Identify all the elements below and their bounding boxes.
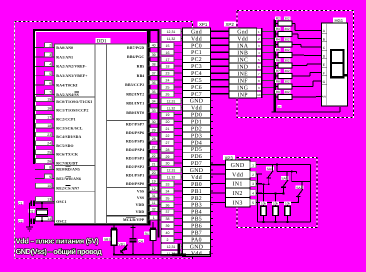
svg-text:34: 34 bbox=[152, 100, 156, 104]
svg-text:RB5: RB5 bbox=[137, 65, 145, 69]
svg-text:38: 38 bbox=[166, 217, 170, 221]
svg-text:Vdd – плюс питания (5V): Vdd – плюс питания (5V) bbox=[16, 237, 100, 246]
svg-text:6: 6 bbox=[49, 81, 51, 85]
svg-text:Vdd: Vdd bbox=[191, 35, 202, 42]
MCU right pin stubs, numbers and names bbox=[147, 47, 161, 49]
svg-text:302: 302 bbox=[284, 69, 289, 73]
junction staircase top bbox=[276, 164, 278, 166]
svg-text:RD3/PSP3: RD3/PSP3 bbox=[126, 156, 144, 160]
svg-text:35: 35 bbox=[166, 196, 170, 200]
svg-text:33: 33 bbox=[152, 109, 156, 113]
connector XP1 pin number boxes bbox=[161, 29, 181, 34]
svg-text:23: 23 bbox=[166, 72, 170, 76]
svg-text:RD7/PSP7: RD7/PSP7 bbox=[126, 122, 144, 126]
wire MCLR down bbox=[152, 222, 154, 230]
svg-text:VDD: VDD bbox=[136, 210, 145, 214]
svg-text:11,32: 11,32 bbox=[167, 106, 176, 110]
svg-text:302: 302 bbox=[284, 80, 289, 84]
display HG1 box bbox=[322, 23, 348, 106]
svg-text:13: 13 bbox=[47, 198, 51, 202]
svg-text:18: 18 bbox=[47, 124, 51, 128]
svg-text:11,32: 11,32 bbox=[167, 176, 176, 180]
wire GND rail top bbox=[256, 164, 311, 166]
svg-text:RA2/AN2/VREF-: RA2/AN2/VREF- bbox=[56, 65, 87, 69]
svg-text:MCLR/VPP: MCLR/VPP bbox=[123, 218, 145, 222]
junction staircase mid bbox=[291, 171, 293, 173]
svg-text:IN1: IN1 bbox=[232, 182, 242, 188]
svg-text:302: 302 bbox=[284, 17, 289, 21]
diode VD1 bbox=[118, 242, 126, 246]
svg-text:8: 8 bbox=[49, 166, 51, 170]
svg-text:RA5/AN4/SS: RA5/AN4/SS bbox=[56, 93, 79, 97]
svg-text:RD1/PSP1: RD1/PSP1 bbox=[126, 173, 144, 177]
svg-text:29: 29 bbox=[152, 129, 156, 133]
resistor bus wire bbox=[273, 20, 276, 113]
svg-text:RA0/AN0: RA0/AN0 bbox=[56, 46, 73, 50]
svg-text:RB3/CCP2: RB3/CCP2 bbox=[125, 83, 144, 87]
svg-text:22: 22 bbox=[152, 154, 156, 158]
svg-text:RC1/T1OSI/CCP2: RC1/T1OSI/CCP2 bbox=[56, 109, 88, 113]
resistor R5 bbox=[276, 54, 278, 56]
svg-text:R3: R3 bbox=[276, 27, 280, 31]
svg-text:12,31: 12,31 bbox=[167, 169, 176, 173]
svg-text:Gnd: Gnd bbox=[191, 28, 202, 35]
resistor R4 10k bbox=[263, 184, 265, 206]
svg-text:RD0/PSP0: RD0/PSP0 bbox=[126, 182, 144, 186]
svg-text:20: 20 bbox=[152, 171, 156, 175]
svg-text:37: 37 bbox=[166, 210, 170, 214]
wire R3 to display bbox=[292, 33, 298, 35]
svg-text:34: 34 bbox=[166, 189, 170, 193]
svg-text:G: G bbox=[323, 80, 326, 84]
svg-text:RB0/INT0: RB0/INT0 bbox=[126, 111, 144, 115]
svg-text:15: 15 bbox=[47, 98, 51, 102]
svg-text:OSC2: OSC2 bbox=[56, 219, 66, 223]
wire IN3 row bbox=[256, 201, 298, 203]
svg-text:19: 19 bbox=[166, 113, 170, 117]
wire caps to ground bbox=[29, 203, 31, 227]
resistor R2 bbox=[276, 23, 278, 25]
svg-text:RC6/TX/CK: RC6/TX/CK bbox=[56, 153, 78, 157]
svg-text:VDD: VDD bbox=[136, 203, 145, 207]
svg-text:1: 1 bbox=[153, 216, 155, 220]
svg-text:RB1/INT1: RB1/INT1 bbox=[126, 102, 144, 106]
svg-text:21: 21 bbox=[166, 127, 170, 131]
connector XP1 named boxes bbox=[183, 28, 211, 35]
wire staircase 1 bbox=[276, 165, 278, 172]
button SB1 bbox=[113, 225, 115, 230]
svg-text:GND(Vss) – общий провод: GND(Vss) – общий провод bbox=[16, 247, 103, 256]
svg-text:9: 9 bbox=[49, 175, 51, 179]
svg-text:302: 302 bbox=[284, 59, 289, 63]
svg-text:R8: R8 bbox=[276, 80, 280, 84]
svg-text:RC2/CCP1: RC2/CCP1 bbox=[56, 118, 75, 122]
dashed frame main block bbox=[14, 22, 192, 259]
svg-text:12,31: 12,31 bbox=[167, 99, 176, 103]
svg-text:RE0/RD/AN5: RE0/RD/AN5 bbox=[56, 168, 80, 172]
overline RD on RE0 bbox=[65, 166, 70, 169]
wire OSC2 bbox=[42, 220, 55, 222]
svg-text:Vdd: Vdd bbox=[191, 105, 202, 112]
svg-text:25: 25 bbox=[47, 151, 51, 155]
junction OSC2 bbox=[41, 220, 43, 222]
svg-text:18: 18 bbox=[166, 65, 170, 69]
svg-text:39: 39 bbox=[152, 53, 156, 57]
power bus wire bbox=[158, 29, 160, 238]
resistor R6 bbox=[276, 65, 278, 67]
svg-text:DD1: DD1 bbox=[97, 39, 107, 45]
svg-text:22: 22 bbox=[166, 134, 170, 138]
MCU DD1 body bbox=[55, 44, 148, 224]
svg-text:Vdd: Vdd bbox=[191, 250, 202, 257]
svg-text:40: 40 bbox=[152, 44, 156, 48]
overline SS on RA5 bbox=[75, 91, 80, 94]
switch SA2 bbox=[281, 176, 289, 180]
wire OSC1 bbox=[42, 202, 55, 204]
svg-text:39: 39 bbox=[166, 224, 170, 228]
wires XP2 to bus bbox=[262, 31, 274, 33]
switch SA3 bbox=[296, 186, 304, 190]
svg-text:RC3/SCK/SCL: RC3/SCK/SCL bbox=[56, 126, 83, 130]
svg-text:10k: 10k bbox=[273, 202, 278, 206]
svg-text:RB2/INT2: RB2/INT2 bbox=[126, 92, 144, 96]
svg-text:F: F bbox=[323, 71, 325, 75]
svg-text:302: 302 bbox=[284, 90, 289, 94]
svg-text:21: 21 bbox=[152, 163, 156, 167]
svg-text:R1: R1 bbox=[145, 232, 149, 236]
svg-text:C1: C1 bbox=[18, 201, 22, 205]
svg-text:SB1: SB1 bbox=[104, 238, 110, 242]
svg-text:RD5/PSP5: RD5/PSP5 bbox=[126, 139, 144, 143]
svg-text:27: 27 bbox=[152, 146, 156, 150]
svg-text:R9: R9 bbox=[276, 90, 280, 94]
wire R2 to display bbox=[292, 23, 295, 25]
svg-text:GND: GND bbox=[231, 163, 245, 169]
wire R4 to display bbox=[292, 44, 301, 46]
wire rail to XP1 bbox=[209, 251, 211, 255]
svg-text:24: 24 bbox=[47, 142, 51, 146]
MCU left group divider 3 bbox=[55, 191, 96, 193]
svg-text:RD6/PSP6: RD6/PSP6 bbox=[126, 131, 144, 135]
svg-text:RC5/SDO: RC5/SDO bbox=[56, 144, 73, 148]
svg-text:12: 12 bbox=[152, 187, 156, 191]
svg-text:Vdd: Vdd bbox=[191, 174, 202, 181]
resistor R1 bbox=[150, 227, 156, 229]
switch SA1 bbox=[266, 167, 274, 171]
svg-text:R6: R6 bbox=[276, 59, 280, 63]
svg-text:RD4/PSP4: RD4/PSP4 bbox=[126, 148, 144, 152]
svg-text:20: 20 bbox=[166, 120, 170, 124]
svg-text:23: 23 bbox=[47, 133, 51, 137]
svg-text:2: 2 bbox=[252, 173, 254, 177]
wires XP1 to XP2 bbox=[211, 30, 230, 32]
svg-text:VD1: VD1 bbox=[119, 242, 126, 246]
svg-text:RC0/T1OSO/T1CKI: RC0/T1OSO/T1CKI bbox=[56, 100, 92, 104]
svg-text:VSS: VSS bbox=[137, 189, 144, 193]
resistor R7 bbox=[276, 75, 278, 77]
connector XP2 named boxes bbox=[229, 28, 257, 35]
MCU left pin stubs, numbers and names bbox=[35, 47, 55, 49]
svg-text:R2: R2 bbox=[276, 17, 280, 21]
svg-text:HG1: HG1 bbox=[335, 18, 344, 23]
svg-text:40: 40 bbox=[166, 231, 170, 235]
svg-text:IN3: IN3 bbox=[232, 201, 242, 207]
resistor R4 bbox=[276, 44, 278, 46]
crystal ZQ1 bbox=[36, 208, 48, 210]
resistor R6 10k bbox=[287, 202, 289, 206]
svg-text:VSS: VSS bbox=[137, 196, 144, 200]
svg-text:33: 33 bbox=[166, 182, 170, 186]
svg-text:R4: R4 bbox=[276, 38, 280, 42]
connector XP1 label bbox=[198, 22, 210, 27]
wires XP1 to XP3 bbox=[211, 164, 226, 166]
wire R9 to display bbox=[292, 96, 316, 98]
svg-text:C2: C2 bbox=[18, 219, 22, 223]
svg-text:19: 19 bbox=[152, 180, 156, 184]
dashed frame display block bbox=[237, 11, 354, 118]
svg-text:4: 4 bbox=[49, 63, 51, 67]
wire R5 to display bbox=[292, 54, 304, 56]
resistor R9 bbox=[276, 96, 278, 98]
MCU right group divider 1 bbox=[107, 120, 148, 122]
svg-text:Gnd: Gnd bbox=[237, 29, 248, 36]
svg-text:RA4/T0CKI: RA4/T0CKI bbox=[56, 84, 78, 88]
wire MCU to XP1 bottom bbox=[160, 226, 162, 245]
svg-text:30: 30 bbox=[166, 162, 170, 166]
bottom rail wire bbox=[114, 254, 211, 256]
crystal ZQ1 leads bbox=[41, 203, 43, 209]
svg-text:17: 17 bbox=[166, 58, 170, 62]
svg-text:IN2: IN2 bbox=[232, 191, 242, 197]
wire R8 to display bbox=[292, 86, 313, 88]
svg-text:RD2/PSP2: RD2/PSP2 bbox=[126, 165, 144, 169]
svg-text:36: 36 bbox=[152, 81, 156, 85]
MCU inner divider right bbox=[106, 44, 108, 224]
svg-text:28: 28 bbox=[166, 148, 170, 152]
svg-text:302: 302 bbox=[284, 48, 289, 52]
overline CS on RE2 bbox=[65, 184, 70, 187]
MCU left group divider 2 bbox=[55, 165, 96, 167]
svg-text:C4: C4 bbox=[139, 239, 143, 243]
svg-text:3: 3 bbox=[252, 182, 254, 186]
svg-text:302: 302 bbox=[284, 38, 289, 42]
svg-text:32: 32 bbox=[152, 208, 156, 212]
svg-text:RA1/AN1: RA1/AN1 bbox=[56, 55, 73, 59]
svg-text:26: 26 bbox=[166, 92, 170, 96]
svg-text:27: 27 bbox=[166, 141, 170, 145]
connector XP2 right pin number boxes bbox=[257, 29, 262, 34]
ground symbol bbox=[26, 226, 33, 228]
MCU left group divider 1 bbox=[55, 96, 96, 98]
svg-text:INP: INP bbox=[238, 93, 248, 99]
svg-text:RE2/CS/AN7: RE2/CS/AN7 bbox=[56, 186, 79, 190]
overline MCLR bbox=[126, 216, 136, 219]
svg-text:16: 16 bbox=[166, 51, 170, 55]
capacitor C2 bbox=[34, 220, 42, 222]
wire R7 to display bbox=[292, 75, 310, 77]
svg-text:10k: 10k bbox=[285, 202, 290, 206]
svg-text:17: 17 bbox=[47, 115, 51, 119]
svg-text:Vdd: Vdd bbox=[232, 171, 243, 178]
svg-text:R5: R5 bbox=[276, 48, 280, 52]
svg-text:10: 10 bbox=[257, 93, 261, 97]
dashed frame keys block bbox=[237, 158, 317, 228]
svg-text:26: 26 bbox=[47, 159, 51, 163]
resistor R8 bbox=[276, 86, 278, 88]
svg-text:16: 16 bbox=[47, 107, 51, 111]
svg-text:36: 36 bbox=[166, 203, 170, 207]
7-segment digit 8 bbox=[331, 50, 344, 63]
svg-text:38: 38 bbox=[152, 62, 156, 66]
svg-text:2: 2 bbox=[167, 238, 169, 242]
svg-text:15: 15 bbox=[166, 44, 170, 48]
wire Vdd drop bbox=[257, 174, 259, 222]
svg-text:R7: R7 bbox=[276, 69, 280, 73]
wire IN2 row bbox=[256, 193, 284, 195]
resistor R3 bbox=[276, 33, 278, 35]
svg-text:1: 1 bbox=[252, 163, 254, 167]
decimal point bbox=[344, 74, 347, 77]
svg-text:10k: 10k bbox=[261, 202, 266, 206]
svg-text:RB4: RB4 bbox=[137, 74, 145, 78]
svg-text:12,31: 12,31 bbox=[167, 245, 176, 249]
svg-text:4: 4 bbox=[252, 192, 254, 196]
wire R6 to display bbox=[292, 65, 307, 67]
junction OSC1 bbox=[41, 202, 43, 204]
svg-text:37: 37 bbox=[152, 72, 156, 76]
wire bottom rail bbox=[258, 221, 311, 223]
svg-text:RB6/PGC: RB6/PGC bbox=[127, 55, 144, 59]
resistor R5 10k bbox=[275, 194, 277, 207]
wire bus to display bottom bbox=[271, 111, 340, 113]
svg-text:30: 30 bbox=[152, 120, 156, 124]
svg-text:XP2: XP2 bbox=[226, 22, 235, 27]
overline WR on RE1 bbox=[65, 175, 71, 178]
connector XP2 label bbox=[224, 22, 236, 27]
MCU inner divider left bbox=[94, 44, 96, 224]
MCU DD1 outline bbox=[33, 29, 151, 226]
capacitor C1 bbox=[34, 202, 42, 204]
svg-text:35: 35 bbox=[152, 90, 156, 94]
svg-text:OSC1: OSC1 bbox=[56, 200, 66, 204]
svg-text:A/N: A/N bbox=[322, 96, 326, 99]
svg-text:11: 11 bbox=[152, 201, 156, 205]
wire MCU top to bus bbox=[150, 29, 160, 31]
svg-text:12,31: 12,31 bbox=[167, 30, 176, 34]
svg-text:24: 24 bbox=[166, 79, 170, 83]
svg-text:3: 3 bbox=[49, 53, 51, 57]
svg-text:31: 31 bbox=[152, 194, 156, 198]
svg-text:25: 25 bbox=[166, 85, 170, 89]
connector XP3 right pin number boxes bbox=[250, 162, 256, 168]
svg-text:5: 5 bbox=[49, 72, 51, 76]
display pin column divider bbox=[326, 23, 328, 106]
capacitor C4 bbox=[132, 225, 134, 239]
connector XP3 named boxes bbox=[225, 160, 250, 169]
svg-text:28: 28 bbox=[152, 137, 156, 141]
ground tap bbox=[177, 244, 180, 255]
svg-text:29: 29 bbox=[166, 155, 170, 159]
svg-text:Vdd: Vdd bbox=[237, 36, 248, 43]
svg-text:RC7/RX/DT: RC7/RX/DT bbox=[56, 162, 78, 166]
wire IN1 row bbox=[256, 183, 269, 185]
svg-text:RC4/SDI/SDA: RC4/SDI/SDA bbox=[56, 135, 81, 139]
MCU right group divider 3 bbox=[107, 215, 148, 217]
wire right rail bbox=[310, 165, 312, 223]
display HG1 label bbox=[333, 17, 346, 22]
svg-text:11,32: 11,32 bbox=[167, 37, 176, 41]
svg-text:10: 10 bbox=[47, 184, 51, 188]
svg-text:RB7/PGD: RB7/PGD bbox=[127, 46, 144, 50]
MCU right group divider 2 bbox=[107, 187, 148, 189]
svg-text:RA3/AN3/VREF+: RA3/AN3/VREF+ bbox=[56, 74, 87, 78]
connector XP3 label bbox=[223, 155, 235, 160]
svg-text:RE1/WR/AN6: RE1/WR/AN6 bbox=[56, 177, 81, 181]
svg-text:2: 2 bbox=[49, 44, 51, 48]
wire staircase 2 bbox=[291, 172, 293, 182]
svg-text:5: 5 bbox=[252, 201, 254, 205]
svg-text:7: 7 bbox=[49, 91, 51, 95]
svg-text:XP1: XP1 bbox=[199, 22, 208, 27]
svg-text:302: 302 bbox=[284, 27, 289, 31]
XP2 number column border bbox=[261, 28, 263, 98]
